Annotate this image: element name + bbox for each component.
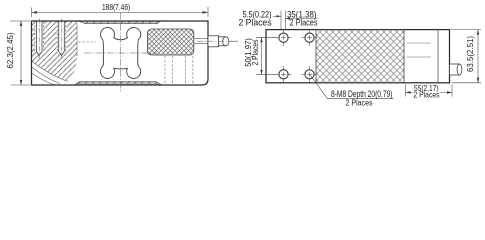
svg-text:2 Places: 2 Places: [290, 18, 318, 29]
strain gauge pocket (crosshatched): [148, 29, 194, 55]
svg-text:2 Places: 2 Places: [414, 91, 440, 100]
cable boot: [208, 36, 238, 47]
hidden cable line in cavity: [78, 41, 96, 43]
cavity fillet arcs: [32, 61, 69, 85]
svg-text:188(7.46): 188(7.46): [102, 2, 130, 12]
mounting hole A1: [276, 30, 292, 46]
dimension 50(1.97): [244, 38, 277, 75]
cable: [229, 40, 238, 42]
inner step line: [437, 30, 439, 83]
bolt hole 1 centerline: [38, 19, 40, 59]
dimension 63.5(2.51): [451, 30, 481, 83]
svg-text:2 Places: 2 Places: [346, 98, 373, 107]
cable hole lines: [194, 39, 208, 44]
gauge area crosshatch: [316, 30, 404, 83]
dimension 5.5(0.22): [239, 9, 286, 29]
cavity left wall: [76, 24, 78, 56]
bolt hole 1: [34, 21, 44, 56]
svg-text:2 Places: 2 Places: [239, 18, 272, 29]
left block hatch region: [32, 21, 78, 81]
vertical centerline of cutout: [119, 13, 121, 93]
cable boot (top view): [450, 64, 462, 75]
top view outline: [266, 30, 450, 83]
svg-text:2 Places: 2 Places: [251, 40, 260, 66]
centerline ticks right part: [407, 43, 431, 57]
mounting hole B1: [276, 66, 292, 82]
bolt hole 2: [57, 21, 67, 56]
svg-text:63.5(2.51): 63.5(2.51): [466, 36, 475, 72]
svg-text:62.3(2.45): 62.3(2.45): [6, 32, 15, 68]
horizontal centerline of cutout: [84, 52, 157, 54]
hidden hole lines in right block: [165, 56, 193, 85]
cable centerline: [197, 40, 239, 42]
dimension 55(2.17): [406, 83, 453, 99]
binocular flexure cutout: [101, 28, 141, 79]
leader 8-M8 Depth 20(0.79): [310, 75, 393, 107]
mounting hole B2: [302, 66, 318, 82]
dimension 188(7.46): [32, 2, 209, 17]
dimension 35(1.38): [286, 9, 318, 28]
dimension 62.3(2.45): [6, 21, 30, 85]
top thin-wall band: [78, 21, 161, 24]
bottom thin-wall band: [74, 82, 162, 86]
body outline: [32, 21, 209, 85]
mounting hole A2: [302, 30, 318, 46]
bolt hole 2 centerline: [61, 19, 63, 59]
